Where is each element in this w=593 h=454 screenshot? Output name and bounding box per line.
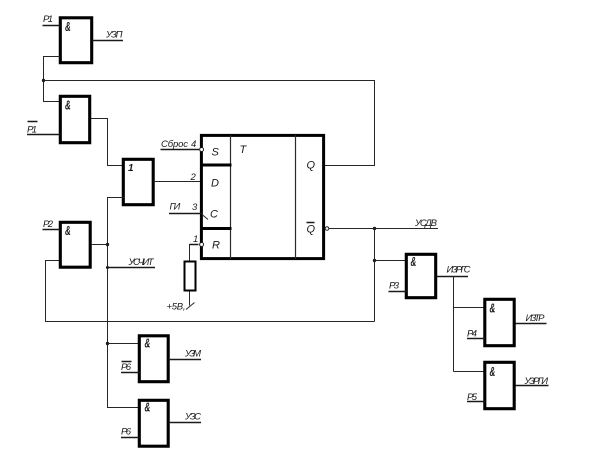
svg-text:+5В,: +5В, bbox=[167, 302, 186, 313]
svg-text:D: D bbox=[211, 178, 219, 190]
svg-text:C: C bbox=[210, 209, 218, 221]
and-gate G7 (P6 -> УЗС) bbox=[139, 400, 168, 446]
wire output УЗМ bbox=[169, 359, 202, 361]
resistor R1 bbox=[185, 262, 196, 291]
svg-text:&: & bbox=[145, 402, 151, 415]
label not-P1 bbox=[27, 122, 38, 136]
wire P4 stub bbox=[467, 338, 485, 340]
svg-text:&: & bbox=[65, 100, 71, 113]
wire G1 second input from node A bbox=[44, 57, 61, 102]
junction УСЧИТ bbox=[106, 266, 109, 269]
pin Q-bar inversion bubble bbox=[325, 227, 329, 231]
wire D1 lower input / long vertical bus bbox=[108, 198, 141, 408]
svg-text:Р1: Р1 bbox=[43, 14, 53, 25]
svg-text:Р6: Р6 bbox=[121, 427, 132, 438]
svg-text:&: & bbox=[65, 225, 71, 238]
wire output УЗРГИ bbox=[516, 385, 549, 387]
wire bus to G6 input bbox=[108, 343, 141, 345]
node B junction on Q-bar bbox=[373, 227, 376, 230]
pin C dynamic-input slash bbox=[202, 215, 208, 220]
svg-text:Q: Q bbox=[307, 224, 316, 236]
svg-text:ИЗРГС: ИЗРГС bbox=[447, 265, 471, 276]
svg-text:УСДВ: УСДВ bbox=[414, 218, 438, 229]
wire node B down to bottom bus bbox=[374, 229, 376, 322]
and-gate G3 (P3 -> ИЗРГС) bbox=[406, 254, 435, 297]
label not-P6 bbox=[121, 362, 132, 374]
svg-text:R: R bbox=[212, 240, 220, 252]
svg-text:S: S bbox=[212, 147, 220, 159]
and-gate G8 (P5 -> УЗРГИ) bbox=[485, 362, 514, 408]
junction G5 output bbox=[106, 243, 109, 246]
wire resistor to +5V bbox=[189, 292, 191, 306]
svg-text:УЗМ: УЗМ bbox=[184, 349, 201, 360]
node C junction bbox=[373, 259, 376, 262]
pin R inversion bubble bbox=[200, 243, 204, 247]
wire output УЗС bbox=[169, 422, 202, 424]
wire output ИЗТР bbox=[516, 323, 547, 325]
wire P5 stub bbox=[467, 401, 485, 403]
wire not-P6 stub bbox=[121, 372, 140, 374]
svg-text:1: 1 bbox=[128, 163, 134, 174]
wire УСЧИТ bbox=[108, 267, 156, 269]
wire R pin to resistor bbox=[190, 244, 199, 246]
and-gate G6 (not-P6 -> УЗМ) bbox=[139, 336, 168, 382]
wire branch to G4 bbox=[454, 307, 486, 309]
junction УЗМ branch bbox=[106, 342, 109, 345]
flip-flop U1 (T) bbox=[201, 135, 324, 259]
and-gate G1 (P1 -> УЗП) bbox=[60, 18, 91, 63]
wire branch to G8 bbox=[454, 371, 486, 373]
wire D1 output to pin 2 (D) bbox=[154, 181, 203, 183]
buffer D1 (1) bbox=[123, 159, 153, 204]
wire bottom bus to P2 gate bbox=[46, 261, 375, 322]
svg-text:УЗС: УЗС bbox=[184, 412, 201, 423]
wire feedback Q: long top run to node A bbox=[44, 81, 375, 166]
wire output ИЗРГС bbox=[437, 276, 468, 278]
wire ГИ to C bbox=[169, 213, 202, 215]
node A junction bbox=[42, 79, 45, 82]
wire P6 stub bbox=[121, 437, 140, 439]
svg-text:2: 2 bbox=[190, 172, 197, 183]
wire Q-bar output УСДВ bbox=[329, 228, 438, 230]
svg-text:&: & bbox=[490, 303, 496, 316]
and-gate G4 (P4 -> ИЗТР) bbox=[485, 299, 514, 345]
svg-text:ИЗТР: ИЗТР bbox=[526, 313, 546, 324]
svg-text:Р2: Р2 bbox=[43, 219, 54, 230]
svg-text:ГИ: ГИ bbox=[170, 202, 181, 213]
wire not-P1 input stub bbox=[27, 134, 60, 136]
wire Сброс to S bbox=[161, 149, 200, 151]
svg-text:УЗП: УЗП bbox=[105, 30, 123, 41]
wire P3 stub bbox=[389, 291, 408, 293]
wire G2 output to element D1 bbox=[91, 119, 124, 166]
svg-text:&: & bbox=[490, 366, 496, 379]
svg-text:Q: Q bbox=[307, 160, 316, 172]
and-gate G5 (P2) bbox=[60, 222, 90, 267]
wire output УЗП bbox=[92, 40, 123, 42]
wire P2 input stub bbox=[43, 229, 61, 231]
and-gate G2 (not-P1) bbox=[60, 96, 89, 142]
pin S inversion bubble bbox=[200, 148, 204, 152]
wire node C to G3 input bbox=[375, 260, 408, 262]
svg-text:1: 1 bbox=[193, 234, 198, 245]
power +5V tap slash bbox=[186, 303, 195, 310]
svg-text:&: & bbox=[145, 338, 151, 351]
svg-text:4: 4 bbox=[191, 139, 196, 150]
svg-text:Сброс: Сброс bbox=[161, 139, 188, 150]
svg-text:УЗРГИ: УЗРГИ bbox=[524, 376, 549, 387]
svg-text:&: & bbox=[65, 21, 71, 34]
wire ИЗРГС branch down bbox=[453, 277, 455, 372]
svg-text:&: & bbox=[411, 256, 417, 269]
wire G5 output to vertical bus bbox=[91, 244, 108, 246]
svg-text:Р3: Р3 bbox=[389, 281, 400, 292]
svg-text:УСЧИТ: УСЧИТ bbox=[128, 257, 155, 268]
svg-text:3: 3 bbox=[192, 202, 198, 213]
svg-text:Р6: Р6 bbox=[121, 362, 132, 373]
wire P1 input stub bbox=[43, 25, 61, 27]
